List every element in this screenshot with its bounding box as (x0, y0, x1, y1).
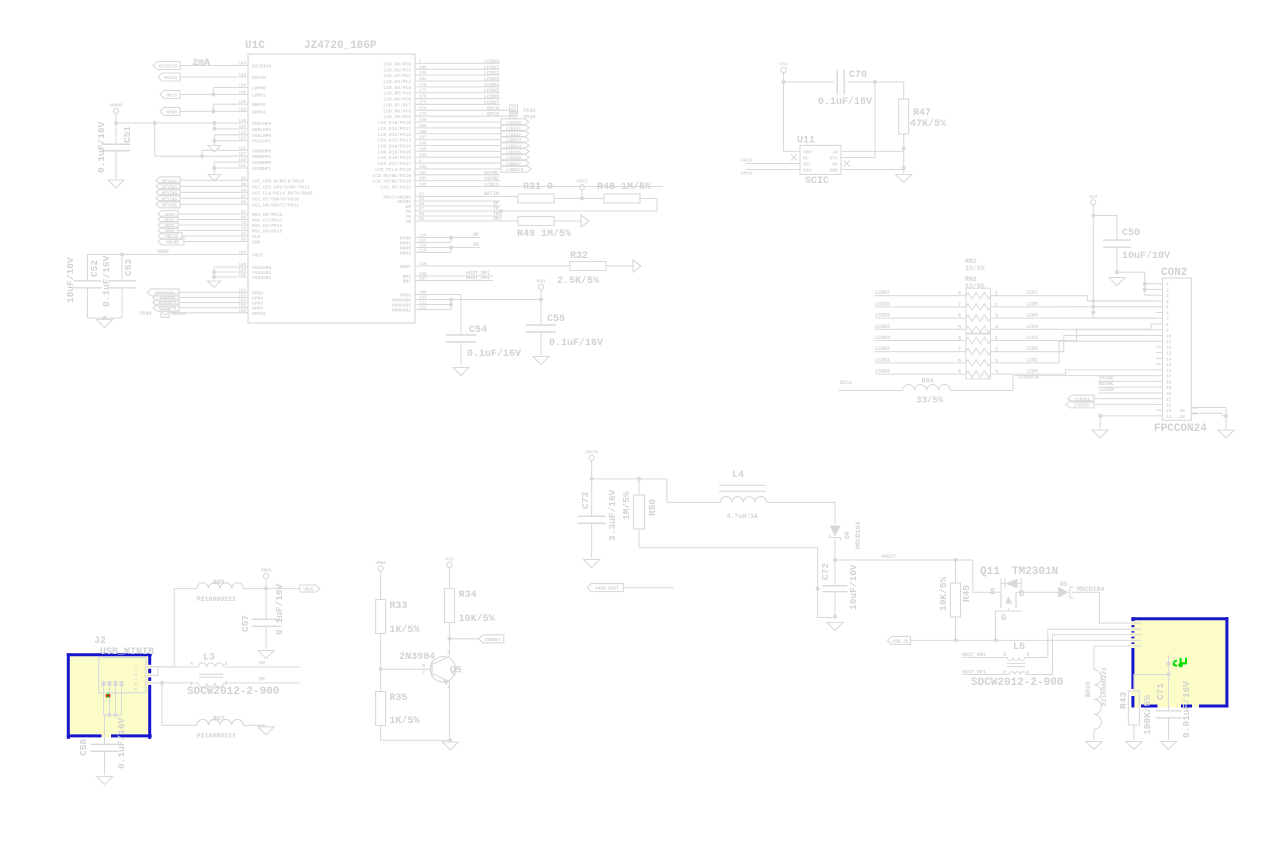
svg-text:25: 25 (1180, 414, 1186, 420)
svg-text:GPC8: GPC8 (741, 158, 752, 164)
svg-text:8: 8 (958, 336, 961, 342)
svg-text:C70: C70 (849, 70, 867, 81)
svg-text:HPRO: HPRO (166, 110, 177, 115)
svg-text:MSC_D1/PD11: MSC_D1/PD11 (252, 218, 283, 224)
svg-text:7: 7 (958, 302, 961, 308)
svg-text:100K/5%: 100K/5% (1142, 695, 1153, 735)
svg-text:VREF: VREF (252, 253, 263, 259)
svg-text:12: 12 (1166, 346, 1172, 351)
svg-text:MICIN: MICIN (164, 76, 178, 81)
svg-text:LCDD10: LCDD10 (506, 122, 522, 126)
svg-text:XN: XN (405, 219, 411, 225)
svg-text:RHPO0: RHPO0 (252, 102, 266, 108)
svg-text:C71: C71 (1155, 683, 1166, 700)
svg-text:7: 7 (1166, 317, 1169, 322)
svg-text:FPCCON24: FPCCON24 (1154, 423, 1207, 435)
svg-text:LCDD15: LCDD15 (506, 151, 522, 155)
svg-text:11: 11 (1166, 340, 1172, 345)
svg-text:USB_JD: USB_JD (893, 639, 909, 644)
svg-text:VHOST: VHOST (881, 554, 896, 560)
svg-text:13: 13 (1166, 352, 1172, 357)
svg-text:C54: C54 (469, 325, 487, 336)
svg-text:VDDLHP1: VDDLHP1 (252, 127, 272, 133)
svg-text:C55: C55 (547, 314, 565, 325)
svg-text:MSCD104: MSCD104 (855, 522, 862, 549)
svg-text:2.5K/5%: 2.5K/5% (557, 275, 599, 287)
svg-text:15: 15 (1166, 363, 1172, 368)
svg-text:SHDN_HOST: SHDN_HOST (595, 587, 619, 592)
svg-text:RN1: RN1 (965, 258, 977, 265)
svg-text:8: 8 (958, 291, 961, 297)
svg-text:DP: DP (259, 677, 265, 683)
svg-text:VDDLHP0: VDDLHP0 (252, 121, 272, 127)
svg-text:J2: J2 (94, 636, 106, 647)
svg-text:0.1uF/16V: 0.1uF/16V (818, 96, 872, 108)
svg-text:L4: L4 (732, 470, 744, 481)
svg-text:9: 9 (1166, 329, 1169, 334)
svg-text:GPD15: GPD15 (172, 311, 186, 317)
svg-text:4: 4 (190, 661, 193, 667)
svg-text:22: 22 (1166, 403, 1172, 408)
svg-text:LCD_D0/PC0: LCD_D0/PC0 (383, 61, 411, 67)
svg-text:DCLK: DCLK (840, 380, 852, 386)
svg-text:1M/5%: 1M/5% (621, 491, 632, 520)
svg-text:1: 1 (1166, 283, 1169, 288)
svg-text:24: 24 (1166, 415, 1172, 420)
svg-text:BATIN: BATIN (484, 191, 499, 197)
svg-text:LHPO0: LHPO0 (252, 86, 266, 92)
svg-text:GPD2: GPD2 (252, 301, 263, 307)
svg-text:GPD4: GPD4 (252, 296, 263, 302)
svg-text:TP38: TP38 (139, 311, 151, 317)
svg-text:26: 26 (1180, 408, 1186, 414)
svg-text:21: 21 (1166, 398, 1172, 403)
svg-text:SDCW2012-2-900: SDCW2012-2-900 (971, 677, 1063, 689)
svg-text:LCDDCLK: LCDDCLK (1018, 374, 1039, 380)
svg-text:VSSLHP1: VSSLHP1 (252, 139, 272, 145)
svg-text:4.7uH/1A: 4.7uH/1A (727, 513, 758, 520)
svg-text:D5: D5 (1060, 581, 1068, 588)
svg-text:DN: DN (473, 242, 479, 248)
svg-text:LCDEN: LCDEN (1099, 387, 1114, 393)
svg-text:LCD_D6/PC6: LCD_D6/PC6 (383, 97, 411, 103)
svg-text:USBDET: USBDET (485, 638, 501, 643)
svg-text:18: 18 (1166, 380, 1172, 385)
svg-text:5: 5 (1166, 306, 1169, 311)
svg-text:B06: B06 (213, 579, 225, 586)
svg-text:HOST_DM1: HOST_DM1 (466, 275, 490, 281)
svg-text:USB_MINIB: USB_MINIB (100, 647, 154, 658)
svg-text:19: 19 (1166, 386, 1172, 391)
svg-text:0.1uF/16V: 0.1uF/16V (274, 583, 285, 635)
svg-text:D: D (1019, 589, 1025, 599)
svg-text:B04: B04 (922, 378, 934, 385)
svg-text:LCD_D8/PC8: LCD_D8/PC8 (383, 108, 411, 114)
svg-text:LCD_DE/PC21: LCD_DE/PC21 (381, 185, 412, 191)
svg-text:SCL: SCL (803, 162, 812, 168)
svg-text:C57: C57 (240, 615, 251, 632)
svg-text:0.1uF/16V: 0.1uF/16V (116, 717, 127, 769)
svg-text:0.1uF/16V: 0.1uF/16V (467, 348, 521, 360)
svg-text:VBUS: VBUS (303, 588, 314, 593)
svg-text:LCD_D1/PC1: LCD_D1/PC1 (383, 67, 411, 73)
svg-text:LCDSDA: LCDSDA (1074, 403, 1090, 408)
svg-text:2mA: 2mA (192, 58, 210, 69)
svg-text:XN: XN (493, 216, 499, 222)
svg-text:6: 6 (958, 358, 961, 364)
svg-text:LCD3: LCD3 (1026, 335, 1038, 341)
svg-text:JZ4720_186P: JZ4720_186P (304, 40, 377, 52)
svg-text:VDDHP: VDDHP (109, 104, 123, 109)
svg-text:L3: L3 (203, 653, 215, 664)
svg-text:LCD_D4/PC4: LCD_D4/PC4 (383, 85, 411, 91)
svg-text:3: 3 (1166, 294, 1169, 299)
svg-text:GND: GND (830, 168, 839, 174)
svg-text:R35: R35 (389, 693, 407, 704)
svg-text:LCD_D13/PC13: LCD_D13/PC13 (378, 138, 411, 144)
svg-text:SSI_CE1_GPC/SYNC/PD22: SSI_CE1_GPC/SYNC/PD22 (252, 184, 310, 190)
svg-text:LCD_D12/PC12: LCD_D12/PC12 (378, 132, 411, 138)
svg-text:VBUS: VBUS (375, 561, 386, 566)
svg-text:C58: C58 (78, 739, 89, 756)
svg-text:CLK: CLK (252, 234, 261, 240)
svg-text:16: 16 (1166, 369, 1172, 374)
svg-text:R31 0: R31 0 (523, 182, 553, 193)
svg-text:SSI_CLK/SCLK_RSTN/PD18: SSI_CLK/SCLK_RSTN/PD18 (252, 190, 313, 196)
svg-text:LCD_PCLK/PC18: LCD_PCLK/PC18 (375, 167, 411, 173)
svg-text:1K/5%: 1K/5% (389, 715, 419, 727)
svg-text:VSSUSB2: VSSUSB2 (252, 275, 272, 281)
svg-text:RHPO1: RHPO1 (252, 109, 266, 115)
svg-text:10: 10 (1166, 334, 1172, 339)
svg-text:SSI_DR/SDATI/PD21: SSI_DR/SDATI/PD21 (252, 202, 299, 208)
svg-text:0.1uF/16V: 0.1uF/16V (101, 255, 112, 307)
svg-text:V33: V33 (1089, 194, 1098, 200)
svg-text:8: 8 (1166, 323, 1169, 328)
svg-text:Q5: Q5 (450, 666, 462, 677)
svg-text:0.01uF/16V: 0.01uF/16V (1181, 681, 1192, 738)
svg-text:SSI_DT/SDATO/PD20: SSI_DT/SDATO/PD20 (252, 196, 299, 202)
svg-text:DN1: DN1 (403, 279, 412, 285)
svg-text:LCDD14: LCDD14 (506, 145, 522, 149)
svg-text:VSSLHP0: VSSLHP0 (252, 133, 272, 139)
svg-text:C52: C52 (89, 260, 100, 277)
svg-text:2: 2 (1166, 288, 1169, 293)
svg-text:6: 6 (958, 313, 961, 319)
svg-text:GPD15: GPD15 (252, 311, 266, 317)
svg-text:33/5%: 33/5% (965, 265, 985, 272)
svg-text:LCD_D2/PC2: LCD_D2/PC2 (383, 73, 411, 79)
svg-text:10uF/10V: 10uF/10V (848, 564, 859, 610)
svg-text:LCD_D14/PC14: LCD_D14/PC14 (378, 143, 411, 149)
svg-text:LCDD13: LCDD13 (506, 140, 522, 144)
svg-text:20: 20 (1166, 392, 1172, 397)
svg-text:NC: NC (832, 162, 838, 168)
svg-text:GPC9: GPC9 (741, 171, 752, 177)
svg-text:LCDSCL: LCDSCL (1075, 398, 1091, 403)
svg-text:LCDD17: LCDD17 (506, 163, 522, 167)
svg-text:VSSRHP0: VSSRHP0 (252, 160, 272, 166)
svg-text:14: 14 (1166, 357, 1172, 362)
svg-text:LHPO1: LHPO1 (252, 93, 266, 99)
svg-text:R45: R45 (961, 585, 972, 602)
svg-text:VDDRHP1: VDDRHP1 (252, 154, 272, 160)
svg-text:KEYIN6: KEYIN6 (162, 204, 178, 208)
svg-text:33/5%: 33/5% (916, 396, 944, 406)
svg-text:R32: R32 (570, 251, 588, 262)
svg-text:10K/5%: 10K/5% (459, 613, 495, 625)
svg-text:U1C: U1C (245, 40, 265, 52)
svg-text:G: G (1001, 613, 1006, 623)
svg-text:0.1uF/16V: 0.1uF/16V (549, 337, 603, 349)
svg-text:B07: B07 (213, 716, 225, 723)
svg-text:CMD: CMD (252, 240, 261, 246)
svg-text:MSC_D2/PD12: MSC_D2/PD12 (252, 223, 283, 229)
svg-text:HPLO: HPLO (166, 94, 177, 99)
svg-text:DP: DP (473, 232, 479, 238)
svg-text:V33: V33 (537, 279, 546, 285)
svg-text:B010: B010 (1085, 681, 1092, 697)
svg-text:MICIN: MICIN (252, 75, 266, 81)
svg-text:0.1uF/16V: 0.1uF/16V (96, 121, 107, 173)
svg-text:R47: R47 (913, 108, 931, 119)
svg-text:LCD_D15/PC15: LCD_D15/PC15 (378, 149, 411, 155)
svg-text:VDD: VDD (803, 149, 812, 155)
svg-text:C51: C51 (122, 126, 133, 143)
svg-text:LCD6: LCD6 (1026, 301, 1038, 307)
svg-text:17: 17 (1166, 375, 1172, 380)
svg-text:A0: A0 (832, 149, 838, 155)
svg-text:33/5%: 33/5% (965, 283, 985, 290)
svg-text:VBAT: VBAT (576, 179, 587, 185)
svg-text:TP35: TP35 (523, 108, 535, 114)
svg-text:LCD_D3/PC3: LCD_D3/PC3 (383, 79, 411, 85)
svg-text:R34: R34 (459, 590, 477, 601)
svg-text:47K/5%: 47K/5% (910, 118, 946, 130)
svg-text:SCIC: SCIC (805, 176, 829, 187)
svg-text:2: 2 (422, 670, 425, 675)
svg-text:5: 5 (958, 369, 961, 375)
svg-text:LCD_D7/PC7: LCD_D7/PC7 (383, 102, 411, 108)
svg-text:RREF: RREF (400, 264, 411, 270)
svg-text:RN2: RN2 (965, 276, 977, 283)
svg-text:TP36: TP36 (523, 115, 535, 121)
svg-text:LCD_D17/PC17: LCD_D17/PC17 (378, 161, 411, 167)
svg-text:LCDCS: LCDCS (484, 182, 499, 188)
svg-text:10uF/10V: 10uF/10V (65, 257, 76, 303)
svg-text:B: B (422, 664, 425, 669)
svg-text:LCD4: LCD4 (1026, 324, 1038, 330)
svg-text:GPD0: GPD0 (252, 306, 263, 312)
svg-text:R50: R50 (647, 499, 658, 516)
svg-text:LCDD12: LCDD12 (506, 134, 522, 138)
svg-text:LCD7: LCD7 (1026, 290, 1038, 296)
svg-text:DN01: DN01 (400, 251, 411, 257)
svg-text:C73: C73 (580, 492, 591, 509)
svg-text:C72: C72 (820, 563, 831, 580)
svg-text:5: 5 (958, 324, 961, 330)
svg-text:U11: U11 (797, 136, 815, 147)
svg-text:VBUS: VBUS (261, 569, 272, 574)
svg-text:VDDRHP0: VDDRHP0 (252, 148, 272, 154)
svg-text:3: 3 (225, 661, 228, 667)
svg-text:R33: R33 (389, 601, 407, 612)
svg-text:7: 7 (958, 347, 961, 353)
svg-text:SDCW2012-2-900: SDCW2012-2-900 (187, 686, 279, 698)
svg-text:2N3904: 2N3904 (399, 652, 435, 663)
svg-text:R48 1M/5%: R48 1M/5% (597, 181, 651, 193)
svg-text:5 4 3 2 1: 5 4 3 2 1 (135, 668, 139, 690)
svg-text:R43: R43 (1118, 692, 1129, 709)
svg-text:VBATD: VBATD (585, 451, 599, 456)
svg-text:VSSRHP1: VSSRHP1 (252, 166, 272, 172)
svg-text:23: 23 (1166, 409, 1172, 414)
svg-text:1K/5%: 1K/5% (389, 624, 419, 636)
svg-text:TM2301N: TM2301N (1012, 566, 1058, 578)
svg-text:PZ1608D221: PZ1608D221 (197, 596, 236, 603)
svg-text:LCD_D16/PC16: LCD_D16/PC16 (378, 155, 411, 161)
svg-text:10K/5%: 10K/5% (938, 576, 949, 611)
svg-text:LCD_HSYNC/PC19: LCD_HSYNC/PC19 (372, 173, 411, 179)
svg-text:NC: NC (803, 155, 809, 161)
svg-text:SSI_CE0_N/BCLK/PD19: SSI_CE0_N/BCLK/PD19 (252, 178, 305, 184)
svg-text:3.3uF/16V: 3.3uF/16V (607, 489, 618, 541)
svg-text:GPD6: GPD6 (252, 290, 263, 296)
svg-text:LCD_D10/PC10: LCD_D10/PC10 (378, 120, 411, 126)
svg-text:SDA: SDA (803, 168, 812, 174)
svg-text:LCD_D5/PC5: LCD_D5/PC5 (383, 91, 411, 97)
svg-text:C50: C50 (1122, 228, 1140, 239)
svg-text:GPC9: GPC9 (487, 112, 499, 118)
svg-text:6: 6 (1166, 311, 1169, 316)
svg-text:STA: STA (830, 155, 839, 161)
svg-text:LCD5: LCD5 (1026, 313, 1038, 319)
svg-text:LCDD16: LCDD16 (506, 157, 522, 161)
svg-text:LCDD11: LCDD11 (506, 128, 522, 132)
svg-text:SDCMD: SDCMD (166, 242, 179, 246)
svg-text:10uF/10V: 10uF/10V (1122, 250, 1170, 262)
svg-text:4: 4 (1166, 300, 1169, 305)
svg-text:VDDUSB2: VDDUSB2 (392, 308, 412, 314)
svg-text:V33: V33 (779, 62, 788, 68)
svg-text:MICBIAS: MICBIAS (252, 64, 272, 70)
svg-text:MSC_D3/PD13: MSC_D3/PD13 (252, 229, 283, 235)
svg-text:MSC_D0/PD10: MSC_D0/PD10 (252, 212, 283, 218)
svg-text:LCD2: LCD2 (1026, 346, 1038, 352)
svg-text:PZ1608D221: PZ1608D221 (1101, 667, 1108, 706)
svg-text:C53: C53 (123, 259, 134, 276)
svg-text:CON2: CON2 (1161, 267, 1187, 279)
svg-text:Q11: Q11 (980, 566, 1000, 578)
svg-text:R49 1M/5%: R49 1M/5% (517, 228, 571, 240)
svg-text:PZ1608D221: PZ1608D221 (197, 733, 236, 740)
svg-text:LCD1: LCD1 (1026, 357, 1038, 363)
svg-text:DN: DN (259, 661, 265, 667)
svg-text:D6: D6 (844, 531, 851, 539)
svg-text:LCD_VSYNC/PC20: LCD_VSYNC/PC20 (372, 179, 411, 185)
svg-text:LCDDCLK: LCDDCLK (506, 169, 524, 173)
svg-text:V33: V33 (445, 557, 454, 563)
svg-text:LCD_D11/PC11: LCD_D11/PC11 (378, 126, 411, 132)
svg-text:L5: L5 (1013, 642, 1025, 653)
svg-text:MICBIAS: MICBIAS (159, 65, 178, 70)
svg-text:LCD_D9/PC9: LCD_D9/PC9 (383, 114, 411, 120)
